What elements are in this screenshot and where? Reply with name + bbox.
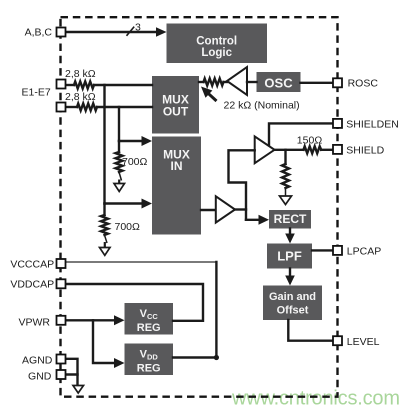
resistor 150 Ohm (304, 146, 322, 153)
svg-text:OSC: OSC (264, 76, 293, 91)
wire shield buffer out (275, 149, 304, 151)
wire LPF to LPCAP (312, 249, 333, 251)
block RECT (269, 210, 311, 229)
wire MUX IN out to lower buffer (201, 209, 216, 211)
wire E1 to MUX OUT (94, 84, 152, 86)
svg-text:VPWR: VPWR (19, 316, 51, 328)
svg-text:22 kΩ (Nominal): 22 kΩ (Nominal) (224, 100, 300, 112)
bus slash (127, 27, 135, 36)
block MUX IN (152, 137, 201, 235)
svg-text:700Ω: 700Ω (115, 221, 141, 233)
arrowhead into MUX IN upper (142, 136, 153, 146)
wire down to shield resistor (284, 150, 286, 164)
wire into MUX IN upper input (119, 140, 144, 142)
block Vcc REG (125, 303, 174, 335)
wire stub to ground (105, 235, 108, 243)
block LPF (267, 244, 312, 269)
op-amp shield buffer (points right) (255, 136, 275, 163)
svg-text:LPCAP: LPCAP (347, 246, 381, 258)
resistor 2,8 kOhm bottom (77, 104, 97, 111)
wire E2 row (65, 106, 77, 108)
wire stub to ground (285, 188, 287, 196)
block Vdd REG (125, 344, 174, 376)
wire VCCCAP vertical down to Vdd reg out (215, 262, 217, 358)
wire GND (65, 375, 78, 386)
resistor 22 kOhm nominal (MUX OUT to osc buffer) (199, 81, 204, 83)
svg-text:Control: Control (196, 36, 237, 48)
ground below GND pins (73, 386, 84, 394)
pin LPCAP (333, 246, 342, 255)
block Gain and Offset (263, 286, 322, 321)
resistor 700 Ohm bottom (101, 215, 108, 235)
pin VDDCAP (57, 279, 66, 288)
pin E1 (57, 80, 66, 89)
pin VCCCAP (57, 259, 66, 268)
wire node into RECT (246, 219, 261, 221)
svg-text:REG: REG (137, 322, 161, 334)
wire stub to ground (119, 172, 122, 181)
resistor 700 Ohm top (116, 152, 123, 172)
block Control Logic (167, 24, 268, 64)
arrow LPF to Gain and Offset (289, 269, 291, 280)
wire SHIELDEN (269, 123, 333, 146)
svg-text:150Ω: 150Ω (297, 135, 323, 147)
wire vertical x=119 from E2 row down (118, 107, 120, 141)
block OSC (257, 72, 301, 92)
svg-text:SHIELDEN: SHIELDEN (346, 119, 399, 131)
pin SHIELDEN (333, 119, 342, 128)
pin A,B,C (57, 28, 66, 37)
svg-text:VDDCAP: VDDCAP (10, 279, 54, 291)
wire E2 to MUX OUT (97, 106, 152, 108)
ground below shield resistor (280, 196, 292, 205)
junction dot (214, 355, 219, 360)
op-amp lower buffer (points right) (216, 196, 235, 222)
svg-text:Gain and: Gain and (269, 291, 316, 303)
svg-text:VCCCAP: VCCCAP (10, 258, 54, 270)
wire to SHIELD pin (321, 149, 333, 151)
wire into MUX IN lower input (105, 202, 145, 204)
pin E2 (57, 103, 66, 112)
svg-text:RECT: RECT (274, 212, 307, 226)
wire down to resistor 700 bottom (103, 204, 105, 216)
wire A,B,C bus to Control Logic (65, 31, 159, 33)
pin ROSC (333, 78, 342, 87)
wire Gain and Offset to LEVEL (288, 320, 333, 341)
svg-text:GND: GND (28, 371, 52, 383)
resistor shield pulldown (282, 164, 289, 188)
ground below 700 Ohm bottom (100, 248, 111, 256)
svg-text:3: 3 (135, 22, 141, 34)
svg-text:AGND: AGND (22, 355, 53, 367)
wire vertical bus x=104.5 from E1 row down (103, 85, 105, 204)
wire VPWR to Vcc REG (65, 319, 117, 321)
svg-text:2,8 kΩ: 2,8 kΩ (65, 68, 96, 80)
wire OSC to ROSC pin (301, 82, 334, 84)
svg-text:www.cntronics.com: www.cntronics.com (231, 388, 400, 410)
svg-text:IN: IN (171, 159, 183, 173)
pin GND (57, 370, 66, 379)
svg-text:SHIELD: SHIELD (346, 145, 384, 157)
op-amp osc buffer (points left) (227, 67, 247, 95)
wire AGND (65, 359, 78, 375)
resistor 2,8 kOhm top (74, 82, 94, 89)
wire Vdd REG output (173, 356, 216, 358)
wire shield buffer input L-path from rect node (229, 150, 255, 220)
svg-text:A,B,C: A,B,C (25, 27, 53, 39)
dashed chip boundary (61, 17, 338, 397)
wire down to resistor 700 top (118, 141, 120, 152)
wire VPWR branch down to Vdd REG (93, 320, 117, 363)
trim arrow pointing at 22k resistor (208, 93, 217, 101)
block MUX OUT (152, 76, 199, 134)
svg-text:REG: REG (137, 363, 161, 375)
svg-text:Offset: Offset (277, 305, 309, 317)
wire VCCCAP (thin) (65, 261, 216, 263)
pin LEVEL (333, 336, 342, 345)
wire lower buffer out to node (235, 208, 246, 210)
arrowhead into MUX IN lower (142, 199, 153, 209)
svg-text:ROSC: ROSC (348, 78, 379, 90)
svg-text:OUT: OUT (163, 105, 189, 119)
arrowhead into RECT (259, 215, 270, 225)
pin AGND (57, 355, 66, 364)
wire buffer to OSC (247, 81, 257, 83)
arrowhead into Vcc REG (114, 315, 125, 325)
arrowhead into Vdd REG (114, 358, 125, 368)
wire VDDCAP (65, 284, 203, 321)
svg-text:Logic: Logic (201, 47, 232, 59)
wire E1 row (65, 84, 74, 86)
pin SHIELD (333, 145, 342, 154)
svg-text:700Ω: 700Ω (122, 156, 148, 168)
pin VPWR (57, 316, 66, 325)
ground below 700 Ohm top (114, 184, 125, 192)
svg-text:E1-E7: E1-E7 (22, 87, 51, 99)
arrowhead into Control Logic (156, 27, 167, 37)
svg-text:LPF: LPF (277, 249, 302, 264)
svg-text:LEVEL: LEVEL (347, 336, 380, 348)
svg-text:2,8 kΩ: 2,8 kΩ (65, 91, 96, 103)
arrow RECT to LPF (289, 229, 291, 238)
